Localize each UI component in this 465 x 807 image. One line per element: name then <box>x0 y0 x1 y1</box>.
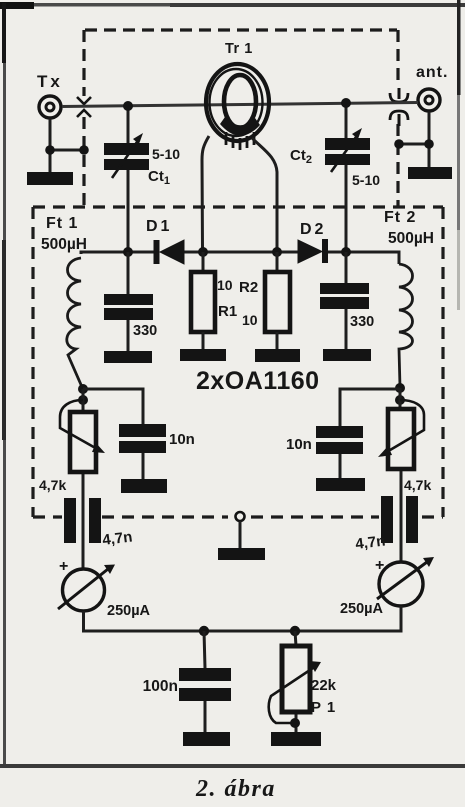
capacitor C330 left <box>104 294 153 320</box>
svg-text:4,7k: 4,7k <box>39 477 66 493</box>
svg-text:500µH: 500µH <box>41 236 87 253</box>
shield divider (dashed) <box>33 205 443 208</box>
svg-text:Tr 1: Tr 1 <box>225 41 253 57</box>
page frame top border <box>0 2 465 9</box>
ground ant <box>408 167 452 179</box>
wire shield ground stub <box>239 521 242 548</box>
svg-text:Ft 2: Ft 2 <box>384 209 416 226</box>
svg-text:10: 10 <box>217 277 233 293</box>
node bus/P1 <box>290 626 300 636</box>
svg-text:2. ábra: 2. ábra <box>195 776 276 802</box>
capacitor C 100n <box>179 668 231 701</box>
Tx connector J1 <box>39 96 61 118</box>
feedthrough capacitor 4,7n right <box>381 496 418 543</box>
wire 100n top <box>204 631 205 733</box>
svg-text:4,7n: 4,7n <box>101 528 133 549</box>
svg-text:330: 330 <box>133 323 157 339</box>
wire Ct1 branch <box>127 106 130 252</box>
svg-text:R1: R1 <box>218 303 237 320</box>
svg-text:+: + <box>59 558 68 575</box>
svg-text:5-10: 5-10 <box>152 146 180 162</box>
ground 100n <box>183 732 230 746</box>
node P1 bottom <box>290 718 300 728</box>
wire pot left body <box>82 389 85 569</box>
potentiometer P right 4.7k body <box>388 409 414 469</box>
inductor Ft1 <box>67 258 82 387</box>
svg-text:500µH: 500µH <box>388 230 434 247</box>
resistor R1 <box>191 272 215 332</box>
node pot right top <box>395 383 405 393</box>
node main wire / Ct1 <box>123 101 133 111</box>
resistor R2 <box>265 272 290 332</box>
svg-text:Ct2: Ct2 <box>290 147 312 166</box>
capacitor C330 right <box>320 283 369 309</box>
svg-text:5-10: 5-10 <box>352 172 380 188</box>
potentiometer P1 wiper arrow <box>269 661 321 723</box>
shield box left edge lower (dashed) <box>31 207 34 517</box>
capacitor C330 left wires <box>127 252 130 351</box>
wire ant ground stub <box>399 112 429 168</box>
potentiometer P left wiper arrow <box>60 400 105 453</box>
node pot right wiper <box>395 395 405 405</box>
node bus/100n <box>199 626 209 636</box>
node shield wall right <box>394 139 404 149</box>
ground R2 <box>255 349 300 362</box>
wire M1 bottom <box>84 611 205 631</box>
wire pot right body <box>400 388 401 562</box>
shield box left edge upper (dashed) <box>82 30 85 208</box>
node rail/Ct2 <box>341 247 351 257</box>
svg-text:D1: D1 <box>146 218 172 235</box>
shield box top edge (dashed) <box>85 28 397 31</box>
node pot left wiper <box>78 395 88 405</box>
ground R1 <box>180 349 226 361</box>
inductor Ft2 <box>399 264 413 387</box>
node rail/R1 <box>198 247 208 257</box>
page frame bottom rule <box>0 764 465 768</box>
shield crossing arrows at Tx side <box>77 97 91 117</box>
wire 10n right branch <box>340 389 400 479</box>
shield crossing arcs at ant side <box>390 88 408 126</box>
wire R2 top <box>276 252 279 272</box>
svg-text:10n: 10n <box>286 436 312 453</box>
node rail/R2 <box>272 247 282 257</box>
node shield wall left <box>79 145 89 155</box>
svg-text:4,7k: 4,7k <box>404 477 431 493</box>
meter M1 250uA <box>58 565 115 612</box>
transformer Tr1 toroid <box>206 64 269 141</box>
wire Tx ground stub <box>50 119 84 173</box>
shield box bottom edge (dashed) <box>33 515 443 518</box>
page frame right border <box>457 0 461 95</box>
trimmer capacitor Ct2 <box>325 128 370 172</box>
meter M2 250uA <box>377 557 434 606</box>
wire Tr1 secondary right lead <box>252 138 277 248</box>
ground 10n right <box>316 478 365 491</box>
ground C330 left <box>104 351 152 363</box>
ground shield <box>218 548 265 560</box>
ground Tx <box>27 172 73 185</box>
svg-text:10: 10 <box>242 312 258 328</box>
diode D2 <box>298 239 328 263</box>
svg-text:2xOA1160: 2xOA1160 <box>196 367 320 395</box>
shield box right edge upper (dashed) <box>396 30 399 208</box>
antenna connector J2 <box>418 89 440 111</box>
svg-text:Tx: Tx <box>37 72 63 91</box>
wire M2 bottom bus <box>204 606 401 631</box>
wire R1 top <box>202 252 205 272</box>
wire R1 bottom <box>202 332 205 350</box>
main antenna wire through Tr1 <box>62 103 418 107</box>
svg-text:P 1: P 1 <box>311 699 336 716</box>
feedthrough capacitor 4,7n left <box>64 498 101 543</box>
node ant shield junction <box>424 139 434 149</box>
svg-text:Ft 1: Ft 1 <box>46 215 78 232</box>
svg-text:330: 330 <box>350 314 374 330</box>
page frame left border <box>2 3 6 766</box>
wire Ct2 branch <box>345 103 348 252</box>
node rail/Ct1 <box>123 247 133 257</box>
svg-text:10n: 10n <box>169 431 195 448</box>
trimmer capacitor Ct1 <box>104 133 149 178</box>
svg-text:ant.: ant. <box>416 64 448 81</box>
potentiometer P left 4.7k body <box>70 412 96 472</box>
svg-text:22k: 22k <box>311 677 337 694</box>
shield ground terminal node <box>236 512 245 521</box>
wire R2 bottom <box>276 332 279 350</box>
svg-text:Ct1: Ct1 <box>148 168 170 187</box>
ground P1 <box>271 732 321 746</box>
transformer Tr1 secondary winding turns <box>220 117 260 150</box>
node Tx shield junction <box>45 145 55 155</box>
ground 10n left <box>121 479 167 493</box>
shield box right edge lower (dashed) <box>441 207 444 517</box>
svg-text:250µA: 250µA <box>107 603 151 619</box>
capacitor C 10n right <box>316 426 363 454</box>
wire P1 top <box>295 631 296 732</box>
node pot left top <box>78 384 88 394</box>
svg-text:250µA: 250µA <box>340 601 384 617</box>
capacitor C 10n left <box>119 424 166 453</box>
svg-text:R2: R2 <box>239 279 258 296</box>
node main wire / Ct2 <box>341 98 351 108</box>
wire detector rail <box>81 252 399 264</box>
diode D1 <box>154 240 185 264</box>
svg-text:100n: 100n <box>143 678 178 695</box>
svg-text:4,7n: 4,7n <box>354 532 386 553</box>
ground C330 right <box>323 349 371 361</box>
wire Tr1 secondary left lead <box>202 136 209 248</box>
potentiometer P right wiper arrow <box>378 400 424 457</box>
svg-text:D2: D2 <box>300 221 326 238</box>
capacitor C330 right wires <box>345 252 348 350</box>
potentiometer P1 22k body <box>282 646 310 712</box>
wire 10n left branch <box>83 389 143 480</box>
